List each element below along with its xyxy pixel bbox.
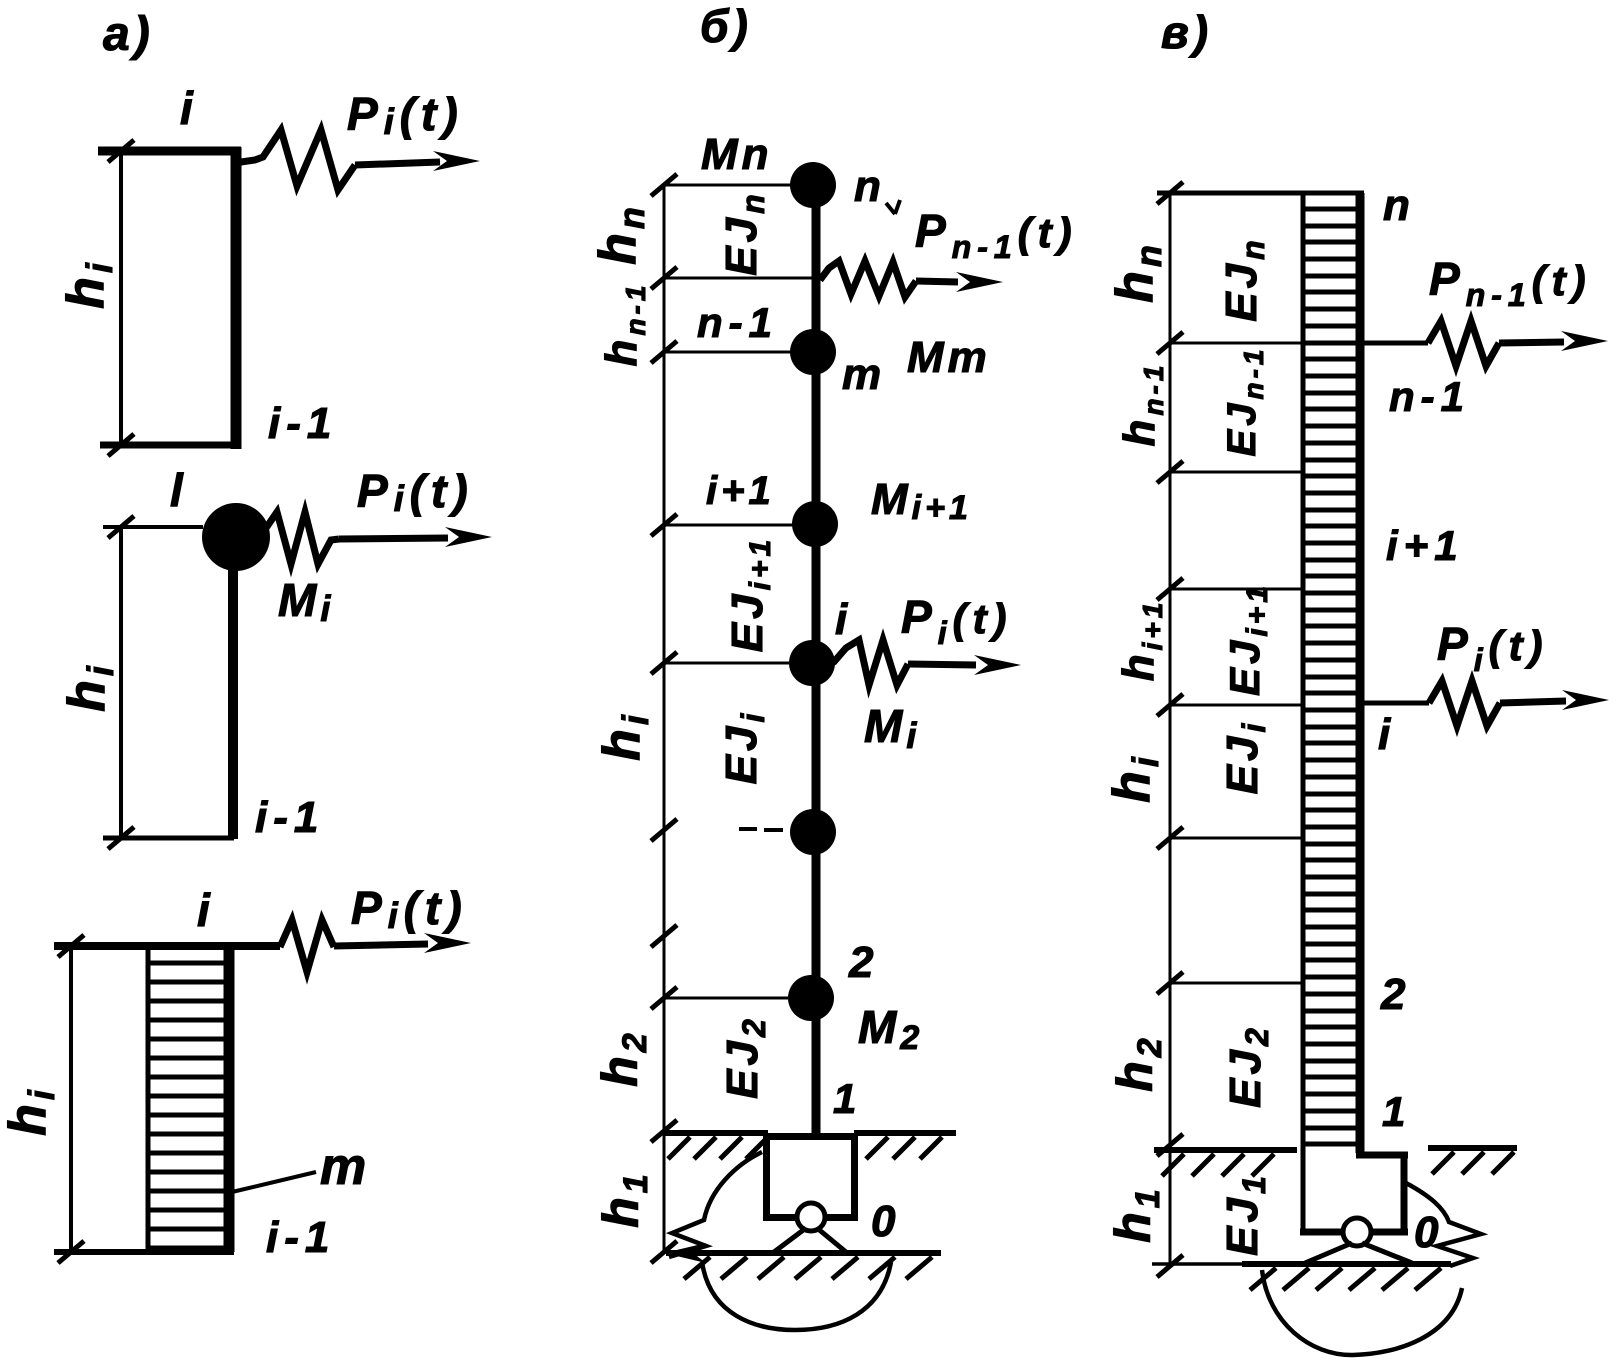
b foundation box	[767, 1137, 855, 1218]
a1 force label Pi(t)	[347, 88, 464, 142]
a1 spring	[241, 130, 355, 190]
a3 node label i-1	[266, 1213, 335, 1262]
b segment label EJ2	[718, 1015, 772, 1099]
svg-text:n: n	[1383, 181, 1414, 230]
svg-text:i: i	[1378, 710, 1394, 759]
a2 force arrow Pi(t)	[339, 527, 492, 547]
v node label 0	[1414, 1208, 1442, 1257]
b dashed line at intermediate node	[739, 829, 783, 830]
v top line	[1157, 191, 1364, 196]
v segment label EJn-1	[1220, 346, 1269, 457]
svg-text:i-1: i-1	[268, 399, 337, 448]
a1 node label i	[180, 82, 197, 134]
svg-text:i-1: i-1	[255, 793, 324, 842]
svg-text:i: i	[180, 82, 197, 134]
svg-text:m: m	[842, 350, 885, 399]
a2 force label Pi(t)	[357, 465, 474, 519]
b node n (mass Mn)	[790, 162, 836, 208]
v upper ground line right	[1428, 1148, 1517, 1174]
svg-text:Pi(t): Pi(t)	[357, 465, 474, 519]
v spring at n-1	[1364, 321, 1499, 366]
svg-text:i+1: i+1	[706, 469, 775, 513]
svg-text:1: 1	[1382, 1088, 1409, 1135]
a3 dimension label hi	[0, 1086, 62, 1136]
b rotation break curve	[669, 1152, 762, 1257]
svg-text:Mn: Mn	[701, 130, 773, 179]
v dimension label hn	[1106, 241, 1169, 303]
v segment label EJ2	[1221, 1024, 1275, 1108]
v force label Pn-1(t)	[1429, 253, 1592, 313]
v foundation hinge	[1305, 1218, 1412, 1263]
b mass label Mi+1	[871, 475, 972, 527]
svg-text:l: l	[170, 464, 187, 516]
svg-text:2: 2	[848, 938, 877, 987]
b upper ground line left	[664, 1133, 768, 1159]
svg-text:в): в)	[1161, 6, 1212, 58]
a2 dimension line hi	[108, 516, 134, 849]
v rocking arc below ground	[1262, 1270, 1462, 1355]
b label Mn	[701, 130, 773, 179]
v force arrow Pn-1(t)	[1499, 331, 1608, 351]
b floor line i	[664, 662, 789, 665]
b cantilever member	[812, 185, 821, 1136]
b dimension label hn	[589, 203, 652, 265]
b segment label EJi	[717, 710, 771, 785]
a2 top extension line	[103, 525, 203, 529]
v force arrow Pi(t)	[1500, 690, 1609, 710]
a2 weightless column line	[228, 560, 238, 839]
svg-text:i-1: i-1	[266, 1213, 335, 1262]
v dimension line (left)	[1169, 193, 1172, 1266]
svg-text:2: 2	[1380, 970, 1409, 1019]
v segment label EJi	[1218, 720, 1272, 795]
b node m (mass Mm)	[790, 329, 836, 375]
v dimension label h2	[1107, 1034, 1169, 1091]
sub-figure label v)	[1161, 6, 1212, 58]
v node label 2	[1380, 970, 1409, 1019]
a3 distributed-mass column (hatched band)	[54, 944, 234, 1252]
svg-text:б): б)	[700, 0, 752, 52]
svg-text:n: n	[854, 162, 885, 211]
v dimension label hi+1	[1114, 599, 1168, 682]
v node label i	[1378, 710, 1394, 759]
a3 dimension line hi	[58, 935, 84, 1263]
a1 dimension label hi	[57, 259, 120, 309]
b upper ground line right	[854, 1133, 956, 1159]
b floor line n	[664, 184, 792, 187]
a3 top line and extension	[54, 942, 280, 950]
b node label m	[842, 350, 885, 399]
a2 dimension label hi	[58, 662, 121, 712]
v dimension ticks	[1157, 182, 1183, 1277]
b segment label EJn	[717, 190, 771, 275]
b dimension ticks	[651, 174, 677, 1263]
svg-text:i: i	[835, 595, 851, 644]
v dimension label hn-1	[1115, 362, 1169, 447]
a3 force label Pi(t)	[351, 882, 468, 936]
b dimension label hn-1	[597, 282, 651, 367]
v segment label EJ1	[1218, 1172, 1272, 1256]
b node i (mass Mi)	[789, 640, 835, 686]
b floor line i+1	[664, 524, 793, 527]
b floor line 2	[664, 997, 788, 1000]
v label i+1	[1386, 522, 1464, 569]
v segment label EJn	[1217, 236, 1271, 321]
b spring at i	[833, 640, 908, 685]
a3 distributed mass label m	[320, 1138, 370, 1196]
b node label 0	[871, 1197, 899, 1246]
svg-text:i: i	[197, 884, 214, 936]
sub-figure label a)	[103, 8, 154, 61]
b label n-1	[697, 299, 778, 346]
b foundation hinge	[774, 1203, 846, 1252]
b node label 2	[848, 938, 877, 987]
svg-text:Mm: Mm	[907, 333, 991, 382]
a1 force arrow Pi(t)	[355, 151, 480, 171]
a2 node label l	[170, 464, 187, 516]
b force label Pn-1(t)	[915, 205, 1078, 265]
b mass label Mi	[864, 700, 920, 756]
v dimension label h1	[1105, 1185, 1167, 1242]
b spring at n-1	[820, 261, 916, 297]
svg-text:n-1: n-1	[1389, 373, 1470, 420]
svg-text:n-1: n-1	[697, 299, 778, 346]
a2 mass node Mi (filled circle)	[202, 503, 270, 571]
a3 node label i	[197, 884, 214, 936]
v label n-1	[1389, 373, 1470, 420]
b node label 1	[833, 1075, 860, 1122]
b floor line m	[664, 351, 791, 354]
b dimension line (left)	[663, 185, 666, 1252]
a2 spring	[266, 512, 339, 564]
v rotation break curve	[1406, 1183, 1481, 1266]
a1 dimension line hi arrows	[108, 140, 134, 456]
svg-text:Pi(t): Pi(t)	[351, 882, 468, 936]
v cell lines	[1170, 343, 1301, 983]
a1 storey column segment i (rectangle)	[98, 147, 241, 449]
a3 spring	[280, 920, 334, 972]
b segment label EJi+1	[723, 536, 777, 652]
b mass label M2	[858, 1001, 923, 1057]
v force label Pi(t)	[1437, 618, 1549, 678]
svg-text:Pi(t): Pi(t)	[347, 88, 464, 142]
sub-figure label b)	[700, 0, 752, 52]
a3 force arrow Pi(t)	[334, 933, 471, 953]
v segment label EJi+1	[1221, 582, 1274, 696]
b dimension label h1	[593, 1170, 655, 1227]
a2 node label i-1	[255, 793, 324, 842]
a2 bottom line i-1	[103, 836, 234, 841]
b rocking arc below ground	[702, 1262, 891, 1330]
b force arrow Pi(t)	[908, 655, 1021, 675]
v spring at i	[1364, 681, 1500, 726]
b force arrow Pn-1(t)	[916, 272, 1003, 292]
b node i+1 (mass Mi+1)	[792, 501, 838, 547]
b lower ground line with left arrow	[664, 1243, 941, 1279]
svg-text:0: 0	[1414, 1208, 1442, 1257]
b dimension label hi	[593, 711, 656, 761]
svg-text:1: 1	[833, 1075, 860, 1122]
v upper ground line left	[1154, 1150, 1297, 1176]
svg-text:а): а)	[103, 8, 154, 61]
v foundation box	[1300, 1153, 1408, 1235]
v node label n	[1383, 181, 1414, 230]
svg-text:0: 0	[871, 1197, 899, 1246]
b node 2 (mass M2)	[788, 975, 834, 1021]
svg-text:i+1: i+1	[1386, 522, 1464, 569]
b intermediate node	[790, 809, 836, 855]
b dimension label h2	[592, 1029, 654, 1086]
v node label 1	[1382, 1088, 1409, 1135]
a2 mass label Mi	[278, 574, 334, 629]
b label i+1	[706, 469, 775, 513]
v lower ground line	[1152, 1264, 1451, 1290]
b node label i	[835, 595, 851, 644]
svg-text:m: m	[320, 1138, 370, 1196]
v distributed-mass cantilever (hatched band)	[1303, 193, 1360, 1232]
v dimension label hi	[1103, 753, 1166, 803]
b mass label Mm	[907, 333, 991, 382]
b node label n	[854, 162, 900, 214]
b floor line at spring n-1	[664, 277, 812, 280]
a3 leader line to m	[232, 1172, 316, 1192]
a1 node label i-1	[268, 399, 337, 448]
b force label Pi(t)	[901, 591, 1013, 651]
